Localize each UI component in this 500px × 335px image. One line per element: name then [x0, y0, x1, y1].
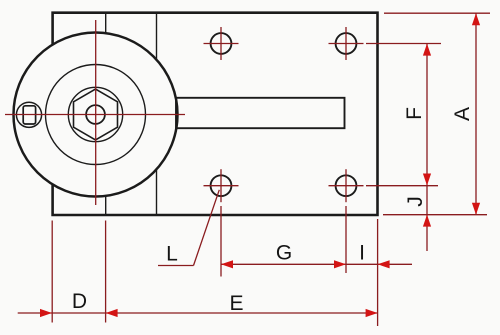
arrow F top (up): [423, 44, 431, 56]
svg-text:A: A: [451, 107, 474, 121]
node: left port keyway rectangle: [23, 106, 35, 124]
svg-text:L: L: [166, 243, 178, 266]
arrow D left (outside, pointing right): [40, 309, 52, 317]
wire: flange edge line left (x=105.7 top segment): [105, 13, 107, 33]
arrow G right / I left: [334, 260, 346, 268]
wire: dimension line D/E horizontal: [18, 312, 378, 314]
node: middle boss circle: [46, 65, 146, 165]
node: horizontal slot: [176, 98, 345, 128]
wire: flange edge line right (x=156.5 bottom segment): [156, 169, 158, 215]
node: hole bottom-right: [336, 175, 357, 196]
arrow J bottom (up from below): [423, 215, 431, 227]
svg-text:J: J: [404, 196, 427, 207]
wire: crosshair hole top-left vertical: [220, 27, 222, 60]
wire: crosshair hole top-right vertical: [345, 27, 347, 60]
node: nut chamfer circle: [68, 87, 122, 141]
arrow A bottom (down): [472, 203, 480, 215]
wire: flange edge line left (x=105.7 bottom segment): [105, 196, 107, 215]
wire: crosshair hole top-right horizontal: [329, 43, 364, 45]
arrow G left: [221, 260, 233, 268]
node: outer flange circle: [14, 33, 178, 197]
wire: extension line top hole center (for F): [366, 43, 441, 45]
svg-text:F: F: [403, 107, 426, 120]
wire: crosshair hole bottom-left vertical: [220, 169, 222, 202]
wire: dimension line G/I horizontal: [221, 263, 412, 265]
node: left port circle: [16, 102, 41, 127]
node: hole top-right: [336, 33, 357, 54]
wire: dimension line A vertical: [475, 13, 477, 215]
wire: crosshair hole top-left horizontal: [204, 43, 239, 45]
wire: leader underline for L: [158, 265, 194, 267]
svg-text:D: D: [72, 290, 87, 313]
wire: extension line bottom edge (for A/J): [383, 214, 487, 216]
arrow E right (pointing right): [366, 309, 378, 317]
wire: leader diagonal for L: [194, 190, 220, 266]
arrow D right / E left (pointing left): [106, 309, 118, 317]
wire: main vertical centerline: [95, 20, 97, 205]
svg-text:G: G: [276, 242, 292, 265]
svg-text:E: E: [229, 292, 243, 315]
arrow F bottom / J top (down): [423, 174, 431, 186]
wire: main horizontal centerline: [5, 114, 185, 116]
node: center shaft hole: [86, 105, 105, 124]
node: hex nut: [74, 89, 118, 140]
wire: crosshair hole bottom-right horizontal: [329, 185, 364, 187]
wire: crosshair hole bottom-left horizontal: [204, 185, 239, 187]
svg-text:I: I: [359, 242, 365, 265]
arrow A top (up): [472, 13, 480, 25]
wire: flange edge line right (x=156.5 top segment): [156, 13, 158, 60]
wire: main body outline (left edge interrupted by flange circle): [53, 13, 378, 215]
arrow I right (outside, pointing left): [378, 260, 390, 268]
wire: extension line x=377.5 (for E/I): [377, 219, 379, 326]
node: hole bottom-left: [211, 175, 232, 196]
wire: extension line bottom hole center (for F/J): [366, 185, 438, 187]
wire: extension line x=53 (for D): [51, 221, 53, 323]
wire: dimension line F/J vertical: [426, 44, 428, 252]
wire: crosshair hole bottom-right vertical: [345, 169, 347, 202]
node: hole top-left: [211, 33, 232, 54]
wire: extension line x=346 (for G/I): [345, 206, 347, 273]
wire: extension line x=105.6 (for D/E): [105, 221, 107, 323]
wire: extension line x=221 (for G): [220, 206, 222, 277]
wire: extension line top edge (for A): [384, 12, 490, 14]
